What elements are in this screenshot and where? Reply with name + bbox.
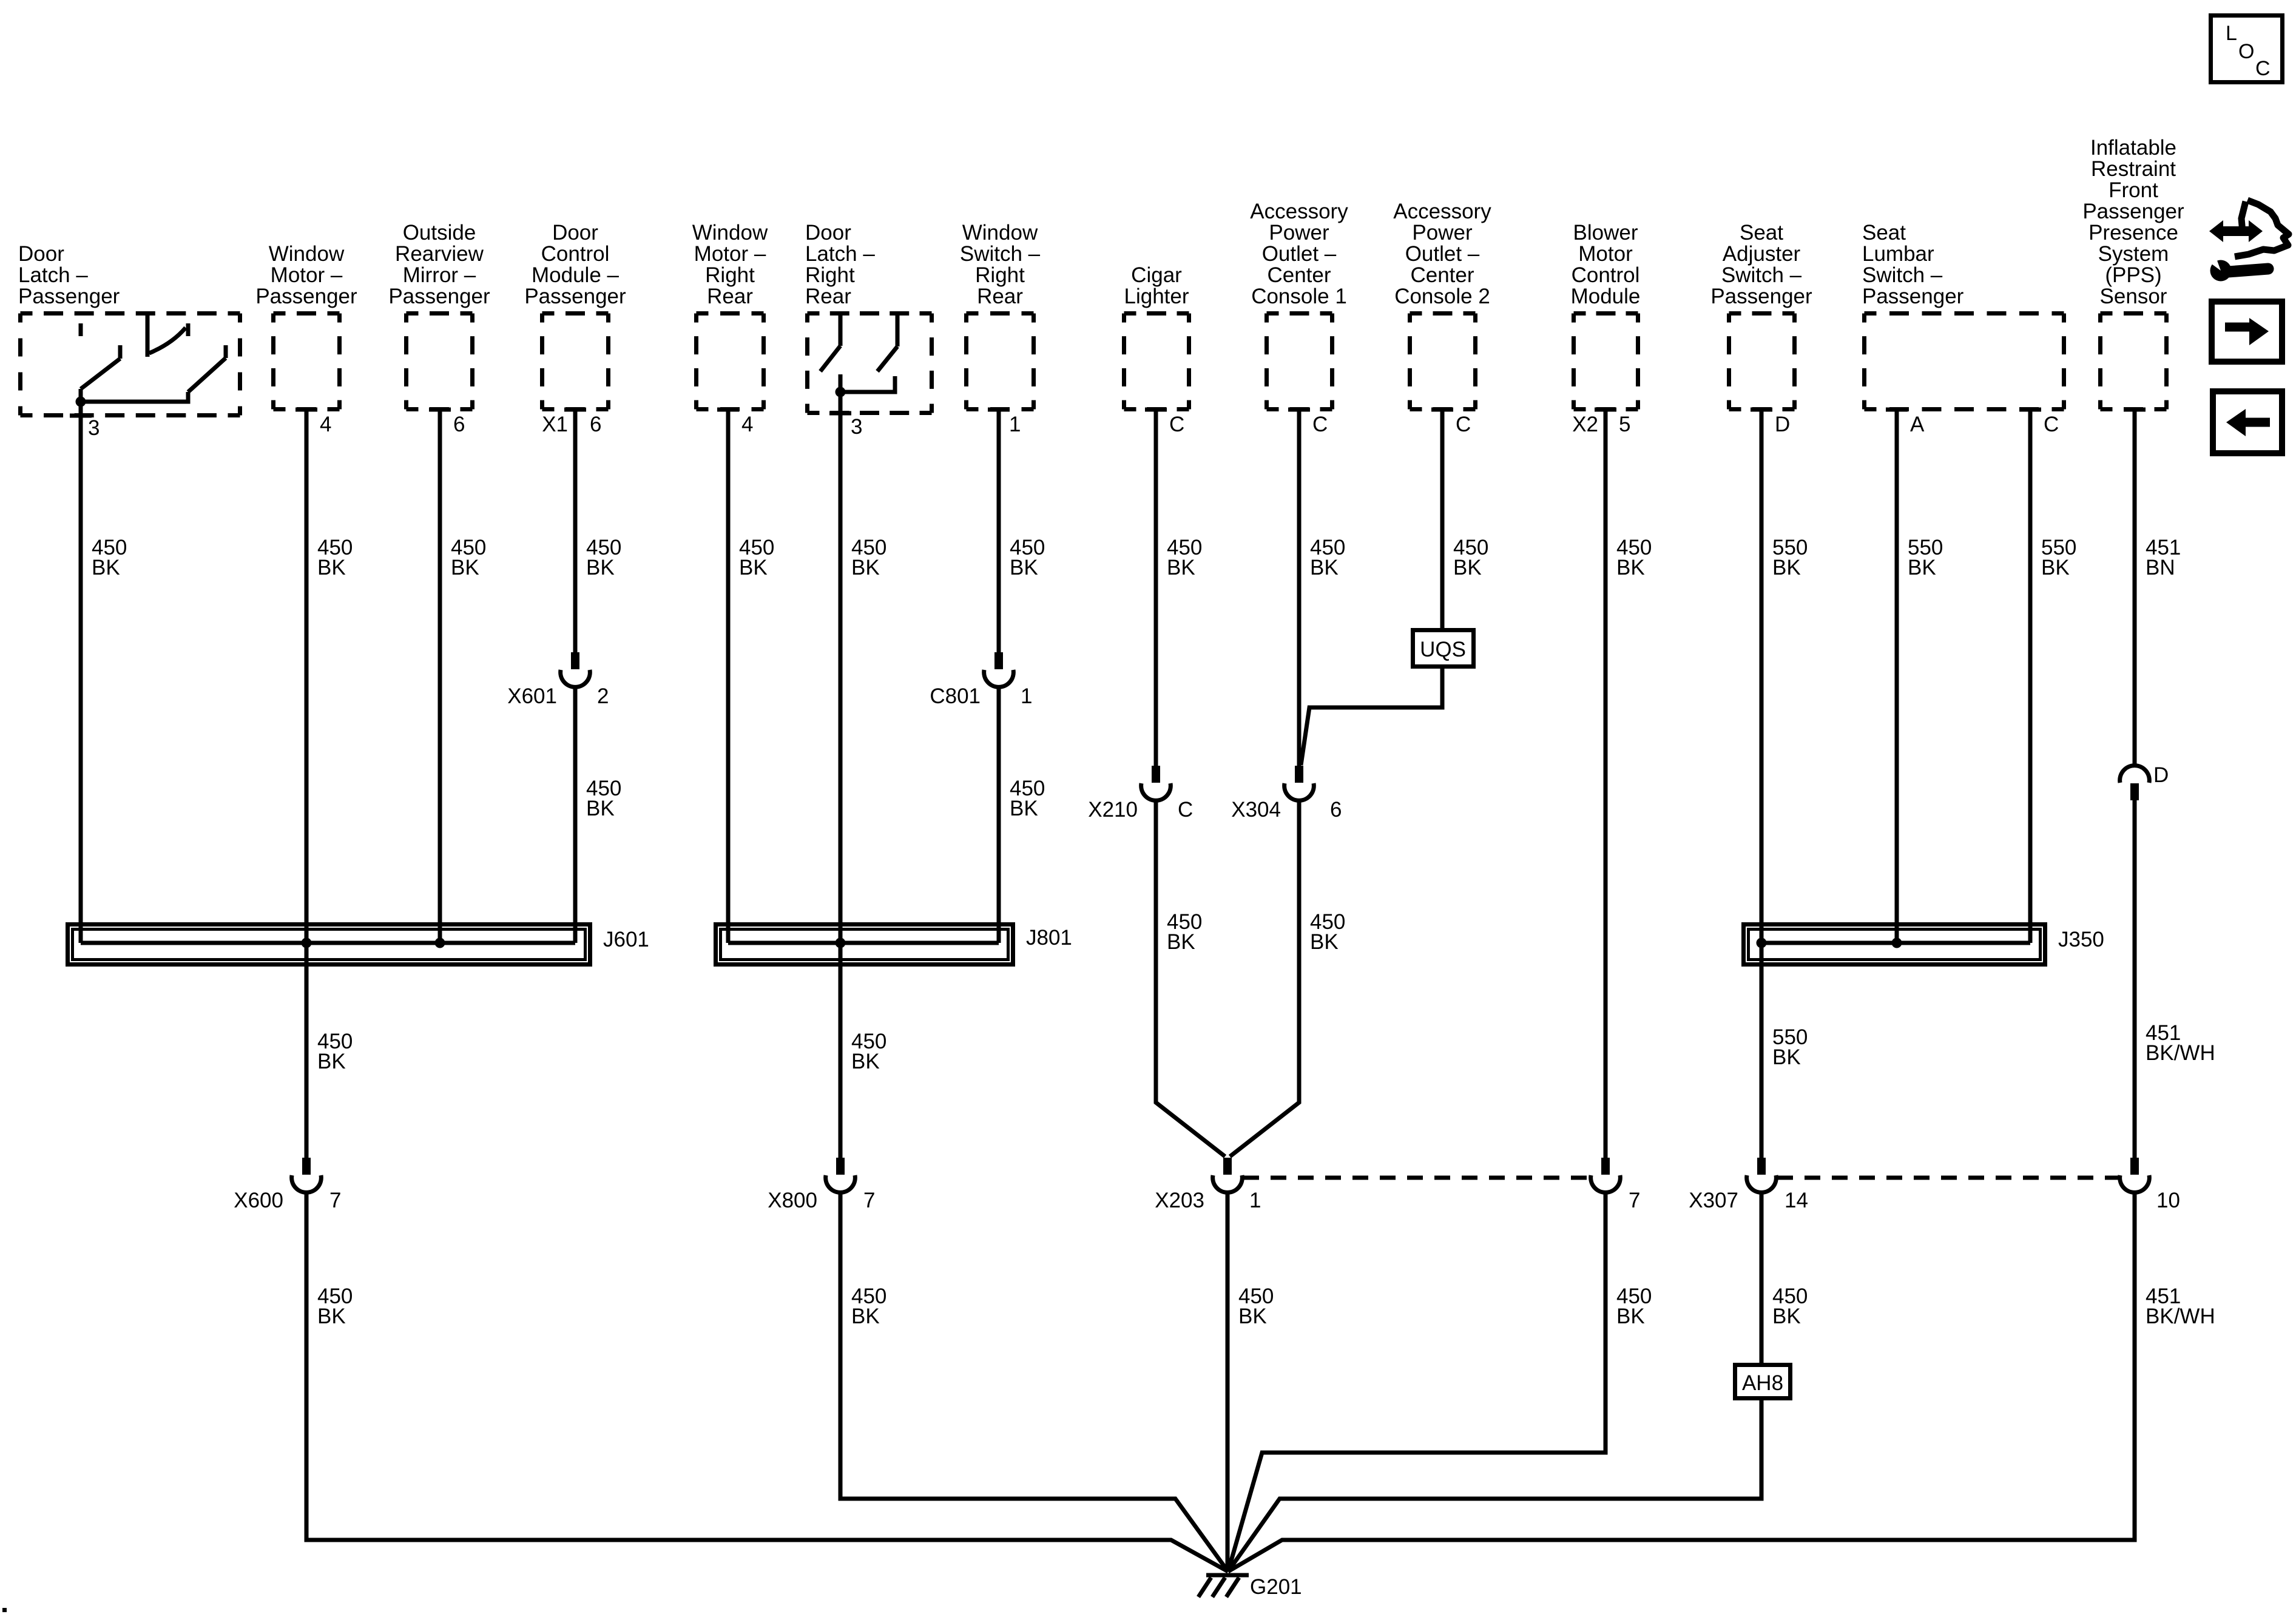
- svg-text:D: D: [2153, 763, 2169, 787]
- svg-text:X800: X800: [768, 1189, 817, 1212]
- wire 450 BK WS RR to C801: [997, 410, 1001, 652]
- wire 550 BK lumbar A to J350: [1895, 410, 1899, 943]
- pin notch Door Latch pin 3: [70, 414, 92, 418]
- splice pack J350 outer shell: [1744, 925, 2045, 965]
- pin label 4: [741, 413, 753, 436]
- wire 450 BK X203 to G201: [1226, 1192, 1230, 1571]
- svg-text:7: 7: [329, 1189, 341, 1212]
- junction dot J801 door latch RR: [836, 938, 846, 948]
- wire label 450 BK: [451, 536, 486, 579]
- wire 450 BK window motor to J601 and X600: [305, 410, 309, 1158]
- wire label 450 BK: [1310, 910, 1345, 954]
- svg-text:C: C: [1178, 798, 1193, 822]
- svg-text:5: 5: [1619, 413, 1630, 436]
- pin notch Outlet2 pin C: [1431, 408, 1453, 412]
- wire AH8 to G201: [1228, 1399, 1761, 1571]
- harness dashed link X203 to blower connector: [1243, 1176, 1590, 1180]
- pin label D: [2153, 763, 2169, 787]
- svg-text:4: 4: [741, 413, 753, 436]
- svg-text:14: 14: [1784, 1189, 1808, 1212]
- svg-text:A: A: [1910, 413, 1925, 436]
- ground label G201: [1250, 1575, 1302, 1599]
- wire label 451 BN: [2146, 536, 2181, 579]
- ground G201 symbol: [1198, 1575, 1249, 1597]
- pin notch Mirror pin 6: [429, 408, 451, 412]
- wire door latch RR drop: [839, 392, 843, 413]
- connector X600 pin 7: [292, 1158, 322, 1192]
- wire 450 BK blower to G201: [1228, 1192, 1606, 1571]
- svg-text:X600: X600: [234, 1189, 283, 1212]
- connector X307 pin 14: [1747, 1158, 1777, 1192]
- wire 450 BK C801 to J801: [997, 686, 1001, 943]
- switch S1b actuator curve: [149, 328, 186, 353]
- switch S2a contact stub: [839, 374, 843, 392]
- pin label X2: [1572, 413, 1598, 436]
- pin label 3: [88, 416, 100, 440]
- svg-text:C: C: [2044, 413, 2059, 436]
- wire label 450 BK: [1167, 910, 1202, 954]
- pin label D: [1775, 413, 1790, 436]
- svg-text:OutsideRearviewMirror –Passeng: OutsideRearviewMirror –Passenger: [388, 221, 490, 308]
- pin label A: [1910, 413, 1925, 436]
- pin notch WS RR pin 1: [988, 408, 1010, 412]
- option label UQS: [1420, 638, 1466, 661]
- wire label 450 BK: [1238, 1284, 1274, 1328]
- pin notch Window Motor pin 4: [295, 408, 317, 412]
- splice label J350: [2058, 928, 2104, 951]
- splice bus J801: [728, 941, 999, 945]
- switch S1b actuator pin: [146, 313, 150, 357]
- wire common jog inside door latch: [81, 392, 188, 402]
- svg-text:X1: X1: [542, 413, 568, 436]
- wire 450 BK X307 through AH8 to G201: [1760, 1192, 1764, 1363]
- svg-text:1: 1: [1249, 1189, 1261, 1212]
- component Door Control Module - Passenger box: [542, 314, 609, 410]
- component Window Motor - Right Rear label: [692, 221, 768, 308]
- splice pack J801 outer shell: [716, 925, 1013, 965]
- pin label 2: [597, 684, 609, 708]
- pin notch Lumbar pin C: [2019, 408, 2041, 412]
- component Seat Lumbar Switch - Passenger label: [1862, 221, 1964, 308]
- pin label C: [1178, 798, 1193, 822]
- harness dashed link X307 to PPS connector: [1777, 1176, 2119, 1180]
- splice label J801: [1026, 926, 1072, 950]
- splice bus J350: [1761, 941, 2030, 945]
- pin notch Cigar Lighter pin C: [1145, 408, 1167, 412]
- pin label C: [1456, 413, 1471, 436]
- wire label 550 BK: [1908, 536, 1943, 579]
- component Accessory Power Outlet 2 box: [1410, 314, 1476, 410]
- svg-text:X210: X210: [1088, 798, 1138, 822]
- svg-text:UQS: UQS: [1420, 638, 1466, 661]
- connector X601 pin 2: [561, 652, 590, 687]
- wire 450 BK door latch to J601: [79, 416, 83, 943]
- switch S2a blade: [820, 346, 840, 371]
- connector D on PPS harness: [2120, 766, 2150, 800]
- wire label 450 BK: [851, 536, 886, 579]
- component Door Latch - Passenger box: [21, 314, 240, 416]
- wire 450 BK X601 to J601: [573, 686, 578, 943]
- connector label X800: [768, 1189, 817, 1212]
- wire 450 BK blower to connector: [1604, 410, 1608, 1158]
- component Outside Rearview Mirror - Passenger label: [388, 221, 490, 308]
- svg-text:C: C: [1312, 413, 1328, 436]
- connector label X210: [1088, 798, 1138, 822]
- component Blower Motor Control Module label: [1571, 221, 1641, 308]
- icon LOC box: [2211, 16, 2283, 83]
- component Outside Rearview Mirror - Passenger box: [407, 314, 473, 410]
- svg-text:D: D: [1775, 413, 1790, 436]
- component Accessory Power Outlet - Center Console 1 label: [1250, 200, 1348, 308]
- svg-text:6: 6: [590, 413, 601, 436]
- connector label C801: [930, 684, 981, 708]
- splice bus J601: [81, 941, 575, 945]
- connector label X203: [1155, 1189, 1204, 1212]
- wire 450 BK DCM to X601: [573, 410, 578, 652]
- pin notch Blower X2 pin 5: [1595, 408, 1616, 412]
- svg-text:J801: J801: [1026, 926, 1072, 950]
- wire 450 BK mirror to J601: [438, 410, 442, 943]
- svg-text:7: 7: [1629, 1189, 1640, 1212]
- option box UQS: [1413, 630, 1474, 667]
- pin notch DL RR pin 3: [829, 411, 851, 416]
- pin label 7: [329, 1189, 341, 1212]
- option label AH8: [1742, 1371, 1783, 1395]
- component Door Latch - Right Rear box: [808, 314, 932, 413]
- svg-text:J350: J350: [2058, 928, 2104, 951]
- wire UQS branch to X304: [1301, 667, 1442, 765]
- pin label 1: [1021, 684, 1032, 708]
- wire label 450 BK: [1010, 777, 1045, 820]
- pin label 6: [453, 413, 465, 436]
- svg-text:C: C: [1456, 413, 1471, 436]
- wire label 550 BK: [1772, 536, 1808, 579]
- wire 451 BK/WH D connector to PPS pin 10: [2133, 798, 2137, 1158]
- wire 451 BN PPS to connector D: [2133, 410, 2137, 766]
- switch S1a blade fixed stub: [118, 345, 123, 359]
- wire label 450 BK: [739, 536, 774, 579]
- component Accessory Power Outlet 1 box: [1267, 314, 1332, 410]
- wire label 450 BK: [851, 1284, 886, 1328]
- pin label C: [2044, 413, 2059, 436]
- wire 450 BK WM RR to J801: [726, 410, 731, 943]
- switch S1b contact stub upper: [186, 323, 191, 336]
- component Window Motor - Right Rear box: [697, 314, 764, 410]
- svg-text:X203: X203: [1155, 1189, 1204, 1212]
- component Window Motor - Passenger label: [255, 242, 357, 308]
- wire label 550 BK: [2041, 536, 2076, 579]
- svg-text:2: 2: [597, 684, 609, 708]
- wire label 450 BK: [1616, 536, 1652, 579]
- component Cigar Lighter label: [1124, 263, 1189, 308]
- switch S2a pin: [839, 313, 843, 346]
- svg-text:3: 3: [851, 415, 862, 439]
- wire 550 BK lumbar C to J350: [2028, 410, 2033, 943]
- connector X800 pin 7: [826, 1158, 856, 1192]
- switch S1b blade: [188, 358, 226, 392]
- wire 450 BK X800 to G201: [840, 1192, 1228, 1571]
- component Inflatable Restraint PPS Sensor label: [2082, 136, 2184, 308]
- svg-text:1: 1: [1009, 413, 1021, 436]
- svg-text:C: C: [1169, 413, 1184, 436]
- pin notch Outlet1 pin C: [1288, 408, 1310, 412]
- pin label 6: [1330, 798, 1342, 822]
- component Window Motor - Passenger box: [274, 314, 340, 410]
- icon forward arrow box: [2212, 302, 2282, 362]
- pin notch Seat Adjuster pin D: [1751, 408, 1772, 412]
- pin label 6: [590, 413, 601, 436]
- connector X210 pin C: [1141, 766, 1171, 800]
- option box AH8: [1735, 1365, 1791, 1399]
- pin notch WM RR pin 4: [717, 408, 739, 412]
- pin label 4: [320, 413, 331, 436]
- switch S2b pin: [896, 313, 900, 346]
- junction dot door latch common: [76, 397, 86, 407]
- component Seat Lumbar Switch box: [1865, 314, 2064, 410]
- connector X203 pin 1: [1213, 1158, 1243, 1192]
- wire common jog door latch RR: [840, 376, 895, 392]
- svg-text:X601: X601: [507, 684, 557, 708]
- connector label X307: [1689, 1189, 1738, 1212]
- svg-text:6: 6: [1330, 798, 1342, 822]
- wire label 450 BK: [317, 1284, 353, 1328]
- svg-text:X2: X2: [1572, 413, 1598, 436]
- svg-text:7: 7: [863, 1189, 875, 1212]
- pin label 1: [1249, 1189, 1261, 1212]
- switch S2b blade: [877, 346, 897, 371]
- svg-text:C801: C801: [930, 684, 981, 708]
- svg-text:AccessoryPowerOutlet –CenterCo: AccessoryPowerOutlet –CenterConsole 1: [1250, 200, 1348, 308]
- component Cigar Lighter box: [1124, 314, 1189, 410]
- svg-text:WindowMotor –Passenger: WindowMotor –Passenger: [255, 242, 357, 308]
- svg-text:CigarLighter: CigarLighter: [1124, 263, 1189, 308]
- junction dot J601 mirror: [435, 938, 445, 948]
- switch S1b blade fixed stub: [224, 345, 228, 358]
- connector PPS pin 10: [2120, 1158, 2150, 1192]
- component Door Latch - Passenger label: [18, 242, 120, 308]
- wire label 450 BK: [586, 536, 621, 579]
- component Blower Motor Control Module box: [1574, 314, 1638, 410]
- component Window Switch - Right Rear box: [967, 314, 1034, 410]
- svg-text:BlowerMotorControlModule: BlowerMotorControlModule: [1571, 221, 1641, 308]
- pin label C: [1312, 413, 1328, 436]
- component Door Latch - Right Rear label: [805, 221, 875, 308]
- wire label 450 BK: [1310, 536, 1345, 579]
- svg-text:10: 10: [2156, 1189, 2180, 1212]
- svg-text:J601: J601: [603, 928, 649, 951]
- connector X304 pin 6: [1285, 766, 1314, 800]
- component Door Control Module - Passenger label: [524, 221, 626, 308]
- splice pack J601 outer shell: [68, 925, 590, 965]
- component Accessory Power Outlet - Center Console 2 label: [1393, 200, 1491, 308]
- svg-text:6: 6: [453, 413, 465, 436]
- component Seat Adjuster Switch box: [1729, 314, 1795, 410]
- pin label 10: [2156, 1189, 2180, 1212]
- component Seat Adjuster Switch - Passenger label: [1710, 221, 1812, 308]
- pin label C: [1169, 413, 1184, 436]
- wire label 450 BK: [317, 536, 353, 579]
- connector label X304: [1231, 798, 1281, 822]
- pin label 1: [1009, 413, 1021, 436]
- junction dot door latch RR: [836, 387, 846, 397]
- pin notch PPS sensor: [2124, 408, 2146, 412]
- svg-text:AccessoryPowerOutlet –CenterCo: AccessoryPowerOutlet –CenterConsole 2: [1393, 200, 1491, 308]
- wire label 550 BK below J350: [1772, 1025, 1808, 1069]
- svg-text:X304: X304: [1231, 798, 1281, 822]
- pin notch Lumbar pin A: [1886, 408, 1908, 412]
- wire label 450 BK: [1453, 536, 1488, 579]
- svg-text:O: O: [2238, 40, 2254, 63]
- svg-text:L: L: [2226, 22, 2237, 45]
- pin label 14: [1784, 1189, 1808, 1212]
- wire 450 BK DL RR to J801 and X800: [839, 413, 843, 1158]
- pin label X1: [542, 413, 568, 436]
- pin label 7: [1629, 1189, 1640, 1212]
- svg-text:G201: G201: [1250, 1575, 1302, 1599]
- svg-text:3: 3: [88, 416, 100, 440]
- junction dot J601 window motor: [302, 938, 312, 948]
- connector C801 pin 1: [984, 652, 1014, 687]
- connector blower pin 7: [1591, 1158, 1621, 1192]
- pin label 5: [1619, 413, 1630, 436]
- switch S1a blade: [81, 359, 120, 389]
- wire 450 BK X304 to X203: [1230, 800, 1299, 1156]
- svg-text:X307: X307: [1689, 1189, 1738, 1212]
- svg-text:1: 1: [1021, 684, 1032, 708]
- wire label 450 BK: [1616, 1284, 1652, 1328]
- junction dot J350 seat adjuster: [1757, 938, 1767, 948]
- wire label 450 BK below J601: [317, 1030, 353, 1073]
- pin label 3: [851, 415, 862, 439]
- stray dot bottom left: [2, 1608, 7, 1612]
- component PPS Sensor box: [2101, 314, 2167, 410]
- icon remove-install arrow and panel: [2209, 200, 2289, 257]
- wire label 450 BK: [1010, 536, 1045, 579]
- connector label X600: [234, 1189, 283, 1212]
- wire door latch common drop: [79, 389, 83, 416]
- wire 450 BK outlet2 to UQS: [1440, 410, 1445, 630]
- icon wrench: [2207, 255, 2268, 282]
- wire 451 BK/WH PPS to G201: [1228, 1192, 2135, 1571]
- wire label 451 BK/WH: [2146, 1284, 2215, 1328]
- wire label 450 BK: [92, 536, 127, 579]
- wire label 450 BK: [586, 777, 621, 820]
- splice label J601: [603, 928, 649, 951]
- wire label 450 BK: [1167, 536, 1202, 579]
- wire label 451 BK/WH: [2146, 1021, 2215, 1065]
- junction dot J350 lumbar A: [1892, 938, 1902, 948]
- wire label 450 BK: [1772, 1284, 1808, 1328]
- switch S1a door latch passenger left contact stub: [79, 323, 83, 336]
- component Window Switch - Right Rear label: [960, 221, 1041, 308]
- wire 450 BK X600 to G201: [306, 1192, 1228, 1571]
- wire 450 BK outlet1 to X304: [1297, 410, 1302, 766]
- wire 450 BK cigar lighter to X210: [1154, 410, 1158, 766]
- pin notch DCM X1 pin 6: [564, 408, 586, 412]
- icon back arrow box: [2213, 391, 2282, 453]
- svg-text:AH8: AH8: [1742, 1371, 1783, 1395]
- svg-text:C: C: [2255, 57, 2271, 80]
- wire 450 BK X210 to X203: [1156, 800, 1225, 1156]
- wire 550 BK seat adjuster to J350 and X307: [1760, 410, 1764, 1158]
- connector label X601: [507, 684, 557, 708]
- svg-text:4: 4: [320, 413, 331, 436]
- pin label 7: [863, 1189, 875, 1212]
- wire label 450 BK below J801: [851, 1030, 886, 1073]
